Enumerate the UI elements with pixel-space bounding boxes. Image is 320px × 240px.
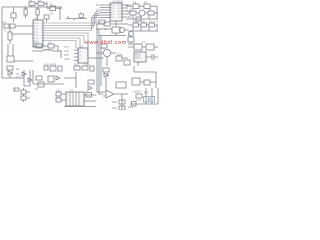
svg-text:P2: P2 bbox=[96, 13, 100, 17]
svg-text:R4: R4 bbox=[3, 21, 7, 25]
comparator U6 bbox=[116, 82, 126, 88]
transformer T1 bbox=[66, 92, 84, 106]
wire bbox=[121, 94, 123, 110]
svg-text:GND: GND bbox=[64, 57, 70, 61]
resistor R18 bbox=[44, 66, 48, 70]
svg-text:XT2: XT2 bbox=[64, 49, 69, 53]
wire bbox=[134, 66, 156, 88]
capacitor C17 bbox=[86, 93, 92, 98]
resistor R8 bbox=[128, 11, 139, 15]
resistor R25 bbox=[132, 78, 144, 85]
IC pin micro text bbox=[35, 5, 121, 103]
capacitor C2 bbox=[36, 7, 39, 20]
wire bbox=[33, 70, 64, 84]
svg-text:R17: R17 bbox=[16, 76, 21, 80]
svg-text:D2: D2 bbox=[16, 67, 20, 71]
capacitor C8 bbox=[138, 54, 158, 66]
wire bus MCU to U2 bbox=[43, 12, 100, 31]
op-amp U3 bbox=[78, 48, 88, 63]
resistor R4 bbox=[4, 24, 9, 28]
svg-text:7805: 7805 bbox=[84, 63, 90, 67]
wire bbox=[64, 72, 76, 88]
resistor R27 bbox=[14, 88, 19, 91]
resistor R15 bbox=[116, 56, 128, 61]
svg-text:C7: C7 bbox=[142, 40, 146, 44]
resistor R1 bbox=[29, 2, 35, 7]
svg-text:R1: R1 bbox=[29, 0, 33, 3]
wire vertical bus down right of MCU bbox=[97, 24, 101, 90]
resistor R24 bbox=[90, 66, 94, 71]
transistor Q3 bbox=[119, 27, 128, 32]
diode D5 bbox=[88, 80, 94, 90]
svg-text:U3: U3 bbox=[80, 45, 84, 49]
capacitor C15 bbox=[150, 97, 155, 103]
svg-text:P1: P1 bbox=[96, 8, 100, 12]
resistor R30 bbox=[136, 94, 142, 98]
svg-text:R2: R2 bbox=[38, 0, 42, 3]
svg-text:U2 89C51: U2 89C51 bbox=[112, 0, 124, 4]
wire bbox=[128, 25, 158, 31]
capacitor C18 bbox=[44, 15, 49, 22]
resistor R11 bbox=[139, 23, 147, 27]
wire bbox=[130, 88, 158, 104]
svg-text:XT1: XT1 bbox=[64, 45, 69, 49]
svg-text:Q2: Q2 bbox=[128, 33, 132, 37]
resistor R9 bbox=[148, 11, 158, 15]
svg-text:C2: C2 bbox=[36, 6, 40, 10]
svg-text:C1: C1 bbox=[24, 6, 28, 10]
svg-text:C14: C14 bbox=[136, 98, 141, 102]
resistor R12 bbox=[147, 23, 159, 27]
capacitor C13 bbox=[56, 98, 66, 102]
svg-text:D: D bbox=[4, 29, 6, 33]
svg-text:D1: D1 bbox=[50, 3, 54, 7]
diode D6 bbox=[104, 73, 108, 90]
svg-text:Y1: Y1 bbox=[36, 41, 40, 45]
svg-text:C9: C9 bbox=[16, 72, 20, 76]
capacitor C11 bbox=[103, 68, 109, 72]
wire bus MCU down bbox=[43, 33, 88, 48]
transistor Q1 bbox=[139, 10, 148, 16]
svg-text:AD0: AD0 bbox=[126, 3, 132, 7]
svg-text:4N25: 4N25 bbox=[50, 63, 57, 67]
capacitor C1 bbox=[24, 7, 27, 18]
capacitor C14 bbox=[144, 97, 149, 103]
resistor R22 bbox=[74, 66, 80, 70]
svg-text:R6: R6 bbox=[133, 1, 137, 5]
op-amp U5 bbox=[103, 90, 128, 98]
transistor Q2 bbox=[129, 32, 134, 37]
svg-text:U1: U1 bbox=[34, 17, 38, 21]
svg-text:R31: R31 bbox=[128, 105, 133, 109]
wire bbox=[98, 33, 126, 36]
resistor R16 bbox=[124, 60, 130, 65]
resistor R10 bbox=[128, 23, 139, 27]
resistor R14 bbox=[96, 22, 128, 26]
resistor R26 bbox=[144, 80, 156, 85]
capacitor C7 bbox=[101, 44, 107, 49]
op-amp U2 bbox=[110, 3, 122, 21]
capacitor C16 bbox=[66, 12, 87, 21]
svg-text:R9: R9 bbox=[148, 8, 152, 12]
resistor R2 bbox=[35, 2, 47, 5]
resistor R23 bbox=[82, 66, 88, 70]
svg-text:R30: R30 bbox=[144, 91, 149, 95]
relay K3 bbox=[146, 44, 158, 50]
svg-text:P0: P0 bbox=[96, 3, 100, 7]
connector J3 bbox=[21, 96, 30, 102]
wire bbox=[64, 95, 96, 107]
relay K1 bbox=[96, 27, 120, 33]
op-amp U1 MCU bbox=[33, 20, 43, 47]
svg-text:www.dltdl.com: www.dltdl.com bbox=[84, 40, 127, 46]
diode D2 bbox=[8, 70, 12, 78]
svg-text:R8: R8 bbox=[130, 8, 134, 12]
resistor R21 bbox=[38, 82, 44, 87]
svg-text:R18: R18 bbox=[44, 63, 49, 67]
svg-text:R28: R28 bbox=[112, 100, 117, 104]
capacitor C3 bbox=[8, 28, 33, 44]
svg-text:R14: R14 bbox=[97, 21, 102, 25]
capacitor C12 bbox=[56, 92, 66, 96]
resistor R6 bbox=[126, 4, 144, 9]
wire top rail bbox=[2, 6, 62, 8]
crystal Y1 bbox=[33, 42, 48, 48]
svg-text:RST: RST bbox=[64, 53, 70, 57]
svg-text:C: C bbox=[86, 89, 88, 93]
capacitor C6 bbox=[48, 44, 58, 51]
node labels P1 bbox=[74, 50, 78, 61]
svg-text:LM324: LM324 bbox=[133, 90, 141, 94]
wire nest bbox=[97, 88, 103, 94]
relay K2 bbox=[128, 44, 146, 50]
svg-text:R10: R10 bbox=[133, 20, 138, 24]
svg-text:R7: R7 bbox=[144, 1, 148, 5]
inductor L1 bbox=[32, 50, 62, 59]
wire bbox=[88, 57, 104, 59]
capacitor C10 bbox=[48, 76, 54, 82]
diode D4 bbox=[56, 76, 60, 80]
wire bbox=[115, 21, 117, 26]
wire U2 left pins bbox=[100, 5, 110, 18]
wire left rail bbox=[1, 7, 3, 78]
resistor R20 bbox=[58, 66, 62, 71]
svg-text:C13: C13 bbox=[56, 95, 61, 99]
wire bbox=[126, 15, 158, 19]
wire bbox=[156, 6, 158, 19]
resistor R13 bbox=[128, 37, 140, 44]
svg-text:R11: R11 bbox=[141, 20, 146, 24]
wire U2 right pins bbox=[122, 5, 128, 17]
resistor R7 bbox=[144, 4, 157, 9]
resistor R5 bbox=[10, 24, 33, 28]
svg-text:D1: D1 bbox=[50, 12, 54, 16]
capacitor C5 bbox=[136, 17, 141, 21]
micro labels bbox=[3, 0, 159, 110]
svg-text:R29: R29 bbox=[112, 106, 117, 110]
wire bbox=[2, 77, 24, 79]
wire bbox=[87, 44, 89, 48]
svg-text:R12: R12 bbox=[149, 20, 154, 24]
resistor R19 bbox=[50, 66, 56, 71]
diode D3 bbox=[22, 70, 32, 86]
svg-text:K1: K1 bbox=[104, 27, 108, 31]
connector J2 bbox=[21, 88, 30, 96]
resistor R28 bbox=[119, 100, 125, 104]
node A bbox=[46, 2, 48, 8]
svg-text:AD2: AD2 bbox=[126, 15, 132, 19]
svg-text:R22: R22 bbox=[74, 63, 79, 67]
resistor R17 bbox=[7, 66, 13, 70]
resistor R3 bbox=[11, 7, 16, 22]
wire bbox=[59, 8, 61, 20]
svg-text:R15: R15 bbox=[117, 53, 122, 57]
capacitor C4 bbox=[99, 20, 105, 24]
resistor R29 bbox=[119, 106, 125, 110]
svg-text:IN: IN bbox=[35, 87, 38, 91]
resistor R31 bbox=[132, 102, 137, 107]
capacitor C9 bbox=[36, 76, 42, 80]
transistor Q4 bbox=[96, 49, 116, 66]
connector J1 bbox=[7, 44, 33, 62]
svg-text:C6: C6 bbox=[48, 41, 52, 45]
diode D1 bbox=[47, 6, 62, 11]
svg-text:C12: C12 bbox=[56, 89, 61, 93]
op-amp U4 bbox=[134, 52, 146, 62]
svg-text:3041: 3041 bbox=[135, 56, 141, 60]
